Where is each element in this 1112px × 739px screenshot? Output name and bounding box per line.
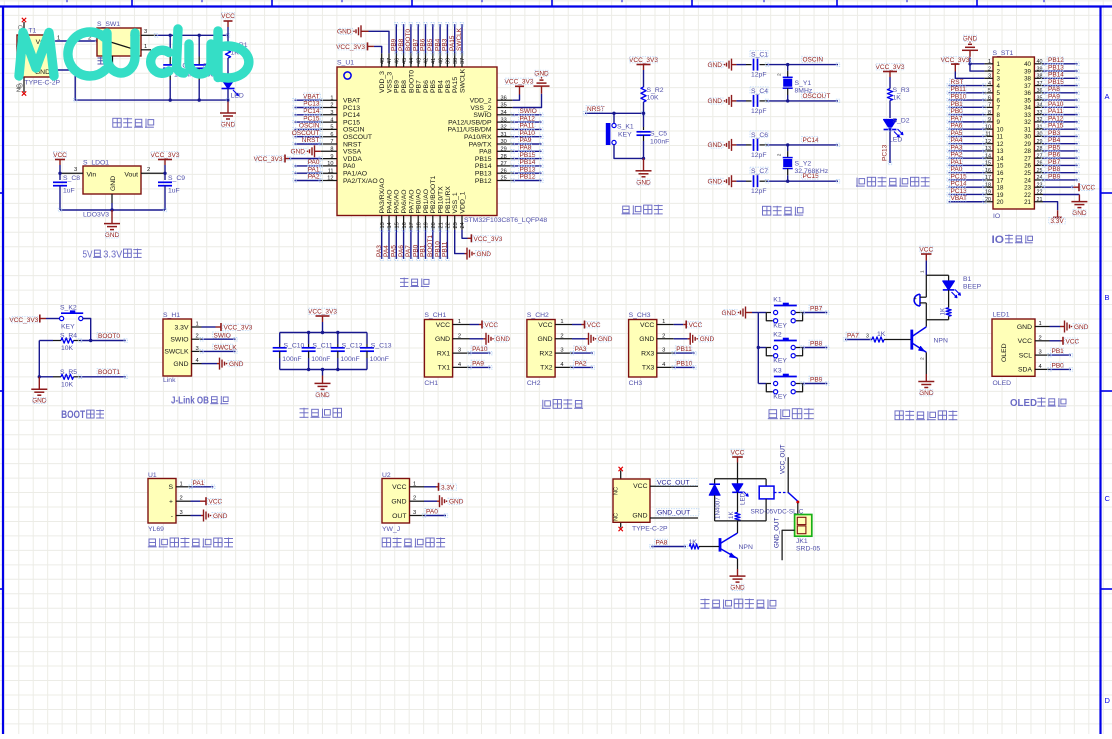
S_CH1 pin2 ground [470,338,484,340]
svg-text:3.3V: 3.3V [175,324,189,331]
svg-text:B1: B1 [963,276,972,283]
svg-text:21: 21 [438,222,444,228]
svg-text:BOOT0: BOOT0 [98,333,120,340]
svg-text:PA4: PA4 [383,245,390,257]
net GND_OUT [650,517,698,519]
svg-text:VCC: VCC [640,322,654,329]
svg-text:48: 48 [380,58,386,64]
svg-text:20: 20 [997,199,1004,206]
svg-text:GND: GND [708,62,723,69]
svg-text:PC14: PC14 [343,112,360,119]
svg-text:5: 5 [330,125,333,131]
svg-text:47: 47 [387,58,393,64]
svg-text:3: 3 [180,510,183,516]
svg-text:OLED: OLED [1010,397,1037,409]
svg-text:37: 37 [460,58,466,64]
net BOOT1 [80,376,126,378]
svg-text:PB10: PB10 [434,241,441,257]
svg-text:-: - [171,513,173,520]
svg-text:24: 24 [460,222,466,228]
svg-text:5: 5 [997,90,1001,97]
svg-text:CH3: CH3 [629,380,643,387]
capacitor S_C11 100nF [308,333,310,345]
svg-text:2: 2 [196,334,199,340]
svg-text:BOOT: BOOT [61,409,85,421]
svg-text:GND: GND [722,310,737,317]
svg-text:PA2/TX/AO: PA2/TX/AO [343,178,378,185]
svg-text:VBAT: VBAT [343,98,360,105]
svg-text:34: 34 [501,110,507,116]
svg-text:KEY: KEY [618,132,632,139]
svg-text:12pF: 12pF [751,108,767,115]
svg-text:1K: 1K [893,95,902,102]
resistor S_R3 1K [887,89,892,101]
svg-text:VCC: VCC [1018,338,1032,345]
svg-text:42: 42 [424,58,430,64]
svg-text:5V: 5V [83,250,93,261]
caption 按键电路 [768,410,778,419]
wire R3 to D2 [889,101,891,119]
svg-text:38: 38 [1024,76,1031,83]
svg-text:36: 36 [501,95,507,101]
svg-text:PB6: PB6 [420,38,427,51]
svg-text:IO: IO [993,213,1000,220]
svg-text:S_C5: S_C5 [650,131,667,138]
ground [643,158,645,170]
base resistor 1K [845,339,872,341]
svg-text:25: 25 [1024,170,1031,177]
svg-text:PA3/RX/AO: PA3/RX/AO [379,178,386,213]
svg-text:7: 7 [997,105,1001,112]
svg-text:LED1: LED1 [993,312,1010,319]
svg-text:12: 12 [997,141,1004,148]
svg-text:1uF: 1uF [63,188,75,195]
svg-text:100nF: 100nF [370,356,389,363]
svg-text:41: 41 [431,58,437,64]
capacitor S_C4 12pF [731,95,733,107]
svg-text:12: 12 [327,176,333,182]
svg-text:16: 16 [997,170,1004,177]
svg-text:30: 30 [1024,134,1031,141]
svg-text:36: 36 [1024,90,1031,97]
svg-text:2: 2 [777,73,783,76]
svg-text:GND: GND [537,336,552,343]
svg-text:OSCOUT: OSCOUT [343,134,372,141]
svg-text:1K: 1K [728,511,735,519]
svg-text:VCC: VCC [587,322,601,329]
LED in alarm [948,275,950,281]
svg-text:7: 7 [988,103,991,109]
svg-text:PB0: PB0 [412,244,419,257]
svg-text:KEY: KEY [773,358,787,365]
svg-text:PB2/BOOT1: PB2/BOOT1 [430,176,437,214]
svg-text:1K: 1K [877,331,886,338]
filter rails [280,332,367,334]
svg-text:32.768KHz: 32.768KHz [795,168,829,175]
alarm bottom join [926,319,948,321]
svg-text:GND: GND [708,142,723,149]
svg-text:2: 2 [920,357,926,360]
svg-text:22: 22 [1037,190,1043,196]
svg-text:VCC_3V3: VCC_3V3 [876,64,905,71]
svg-text:10K: 10K [61,345,74,352]
svg-text:NRST: NRST [343,141,362,148]
caption 电源电路 [113,118,121,127]
svg-text:100nF: 100nF [340,356,359,363]
svg-text:8: 8 [997,112,1001,119]
svg-text:2: 2 [988,66,991,72]
svg-text:2: 2 [560,333,563,339]
svg-text:21: 21 [1024,199,1031,206]
svg-text:J-Link OB: J-Link OB [171,395,209,407]
ST1 pin23 VCC flag [1043,186,1073,188]
svg-text:S_C8: S_C8 [63,175,80,182]
svg-text:S_ST1: S_ST1 [993,50,1014,57]
svg-text:Vout: Vout [124,172,138,179]
svg-text:14: 14 [997,155,1004,162]
H1 pin4 ground [202,363,218,365]
capacitor S_C13 100nF [366,333,368,345]
wire T1 VCC to SW1 [53,40,97,42]
svg-text:BOOT1: BOOT1 [427,235,434,257]
svg-text:32: 32 [1024,119,1031,126]
svg-text:VDD_1: VDD_1 [459,191,466,213]
crystal S_Y2 32.768KHz [786,143,789,146]
relay coil SRD-05VDC-SL-C [765,479,767,486]
svg-text:30: 30 [501,139,507,145]
resistor S_R1 1K [227,35,229,43]
svg-text:VDD_2: VDD_2 [470,98,492,105]
svg-text:NC: NC [613,513,619,521]
svg-text:TX2: TX2 [540,365,553,372]
svg-text:PB4: PB4 [434,38,441,51]
svg-text:RST: RST [951,79,964,86]
svg-text:3: 3 [196,346,199,352]
svg-text:GND: GND [337,29,352,36]
wire net OSCOUT [767,100,838,102]
svg-text:SWIO: SWIO [473,112,491,119]
svg-text:K3: K3 [773,368,782,375]
svg-text:PA5: PA5 [391,245,398,257]
crystal S_Y1 8MHz [786,63,789,66]
svg-text:1: 1 [196,322,199,328]
key S_K1 KEY [613,113,615,123]
svg-text:2: 2 [458,333,461,339]
svg-text:2: 2 [147,167,150,173]
U1 pin1 net PA1 [191,486,214,488]
svg-text:VCC_3V3: VCC_3V3 [629,57,658,64]
svg-text:S_CH3: S_CH3 [629,312,651,319]
svg-text:PA7/AO: PA7/AO [408,189,415,213]
svg-text:S_C12: S_C12 [342,343,363,350]
OLED pin2 VCC flag [1050,340,1061,342]
svg-text:S_Y2: S_Y2 [795,160,812,167]
svg-text:S_C1: S_C1 [751,52,768,59]
svg-text:29: 29 [1024,141,1031,148]
svg-text:28: 28 [1024,148,1031,155]
svg-text:31: 31 [501,132,507,138]
svg-text:17: 17 [997,177,1004,184]
svg-text:KEY: KEY [773,323,787,330]
svg-text:6: 6 [988,95,991,101]
svg-text:3: 3 [330,110,333,116]
svg-text:1: 1 [144,44,147,50]
svg-text:C: C [1105,494,1111,503]
svg-text:GND: GND [708,179,723,186]
svg-text:37: 37 [1024,83,1031,90]
svg-text:26: 26 [1024,163,1031,170]
svg-text:12pF: 12pF [751,188,767,195]
svg-text:K2: K2 [773,332,782,339]
svg-text:27: 27 [501,161,507,167]
svg-text:GND: GND [110,176,117,191]
svg-text:7: 7 [330,139,333,145]
wire Vout [141,172,165,174]
U1 pin36 VCC_3V3 flag [513,95,520,101]
svg-text:D: D [1105,696,1111,705]
svg-text:8: 8 [330,147,333,153]
svg-text:NPN: NPN [934,338,948,345]
wire net PC15 [767,180,838,182]
svg-text:43: 43 [416,58,422,64]
svg-text:VCC: VCC [538,322,552,329]
S_CH1 pin3 net PA10 [470,352,491,354]
svg-text:LED: LED [740,492,747,505]
svg-text:+: + [914,296,917,302]
svg-text:GND: GND [173,361,188,368]
svg-text:KEY: KEY [61,324,75,331]
svg-text:VSS_2: VSS_2 [470,105,491,112]
svg-text:GND: GND [1017,324,1032,331]
svg-text:34: 34 [1024,105,1031,112]
svg-text:3: 3 [144,29,147,35]
net BOOT0 [80,340,126,342]
svg-text:4: 4 [988,81,991,87]
svg-text:VCC_3V3: VCC_3V3 [308,309,337,316]
svg-text:VCC_3V3: VCC_3V3 [505,79,534,86]
OLED pin3 net PB1 [1050,354,1072,356]
svg-text:VCC: VCC [392,484,406,491]
svg-text:PB8: PB8 [401,80,408,93]
svg-text:S_H1: S_H1 [163,312,180,319]
svg-text:10: 10 [997,126,1004,133]
svg-text:Vin: Vin [87,172,97,179]
svg-text:1: 1 [997,61,1001,68]
S_CH3 pin4 net PB10 [674,366,695,368]
svg-text:1: 1 [330,95,333,101]
svg-text:S_CH1: S_CH1 [424,312,446,319]
wire D2 to PC13 [889,130,891,164]
svg-text:1N4007: 1N4007 [715,497,722,519]
svg-text:10: 10 [327,161,333,167]
svg-text:VDD_3: VDD_3 [379,71,386,93]
net PB9 [803,383,828,385]
base net PA8 resistor 1K [651,546,686,548]
svg-text:IO: IO [992,234,1005,246]
svg-text:9: 9 [997,119,1001,126]
svg-text:S_C4: S_C4 [751,88,768,95]
svg-text:PB9: PB9 [394,80,401,93]
svg-text:PB1: PB1 [420,244,427,257]
svg-text:13: 13 [380,222,386,228]
svg-text:LDO3V3: LDO3V3 [83,212,109,219]
capacitor S_C6 12pF [731,139,733,151]
svg-text:1: 1 [458,319,461,325]
svg-text:21: 21 [1037,197,1043,203]
svg-text:22: 22 [1024,192,1031,199]
svg-text:3: 3 [413,510,416,516]
svg-text:1: 1 [662,319,665,325]
svg-text:NC: NC [17,84,23,92]
svg-text:VCC: VCC [484,322,498,329]
svg-text:PA1/AO: PA1/AO [343,171,367,178]
net GND_OUT wire [782,530,795,560]
svg-text:PA9/TX: PA9/TX [469,141,492,148]
svg-text:1: 1 [988,59,991,65]
ground [227,100,229,113]
svg-text:3: 3 [988,74,991,80]
keys ground [745,307,747,319]
svg-text:18: 18 [997,185,1004,192]
svg-text:JK1: JK1 [796,538,808,545]
svg-text:PB10/TX: PB10/TX [438,186,445,214]
svg-text:PA6/AO: PA6/AO [401,189,408,213]
ground [322,370,324,376]
caption 液位检测模块 [382,538,390,547]
svg-text:PB5: PB5 [427,38,434,51]
svg-text:PA0: PA0 [343,163,356,170]
svg-text:10K: 10K [647,95,660,102]
svg-text:SWCLK: SWCLK [164,349,189,356]
svg-text:2: 2 [413,496,416,502]
caption 串口电路 [542,400,551,409]
svg-text:PB8: PB8 [398,38,405,51]
relay top rail [715,478,767,480]
svg-text:GND: GND [708,98,723,105]
svg-text:1: 1 [920,270,926,273]
svg-text:SWCLK: SWCLK [456,27,463,51]
capacitor S_C12 100nF [337,333,339,345]
svg-text:TX3: TX3 [642,365,655,372]
svg-text:PA3: PA3 [376,245,383,257]
svg-text:29: 29 [501,147,507,153]
svg-text:26: 26 [501,168,507,174]
capacitor S_C9 1uF [164,173,166,180]
wire net PC14 [767,144,838,146]
S_CH3 pin2 ground [674,338,688,340]
wire LED to gnd rail [227,89,229,101]
H1 pin1 VCC_3V3 flag [202,326,216,328]
svg-text:10K: 10K [61,381,74,388]
svg-text:2: 2 [997,68,1001,75]
svg-text:6: 6 [330,132,333,138]
svg-text:GND: GND [291,149,306,156]
gnd rail wire [53,70,228,100]
keys vertical bus [757,313,759,384]
svg-text:KEY: KEY [773,394,787,401]
svg-text:YL69: YL69 [148,526,164,533]
svg-text:VCC: VCC [689,322,703,329]
svg-text:K1: K1 [773,297,782,304]
svg-text:BEEP: BEEP [963,284,982,291]
svg-text:RX2: RX2 [539,350,552,357]
svg-text:39: 39 [1024,68,1031,75]
svg-text:PA5/AO: PA5/AO [394,189,401,213]
svg-text:39: 39 [446,58,452,64]
svg-text:S_R3: S_R3 [893,87,910,94]
capacitor S_C7 12pF [731,175,733,187]
ST1 pin21 3.3V flag [1043,202,1058,211]
svg-text:RX1: RX1 [437,350,450,357]
svg-text:12pF: 12pF [751,152,767,159]
svg-text:31: 31 [1024,126,1031,133]
stub SW1 pin1 [141,49,151,51]
capacitor S_C3 100nF [198,35,200,56]
svg-text:VCC: VCC [1082,185,1096,192]
svg-text:33: 33 [501,117,507,123]
LED S_LED1 [227,58,229,79]
capacitor S_C1 12pF [731,59,733,71]
svg-text:PA15: PA15 [449,35,456,51]
svg-text:+: + [169,499,173,506]
connector TYPE-C-2P output [620,471,622,480]
svg-text:17: 17 [409,222,415,228]
svg-text:GND_OUT: GND_OUT [774,518,781,548]
transistor Q2 NPN [719,538,722,552]
svg-text:PB12: PB12 [475,178,492,185]
svg-text:38: 38 [453,58,459,64]
svg-text:PB1/AO: PB1/AO [423,189,430,214]
caption 滤波电路 [300,408,309,418]
svg-text:SCL: SCL [1019,352,1032,359]
svg-text:2: 2 [180,496,183,502]
svg-text:GND: GND [391,499,406,506]
svg-text:100nF: 100nF [282,356,301,363]
S_CH2 pin2 ground [572,338,586,340]
wire LDO gnd [111,194,113,203]
svg-text:S_R4: S_R4 [60,333,77,340]
svg-text:PB7: PB7 [412,38,419,51]
svg-text:BOOT0: BOOT0 [408,70,415,93]
svg-text:VDDA: VDDA [343,156,362,163]
svg-text:PB6: PB6 [423,80,430,93]
svg-text:GND: GND [632,513,647,520]
svg-text:4: 4 [330,117,333,123]
svg-text:19: 19 [997,192,1004,199]
svg-text:6: 6 [997,97,1001,104]
svg-text:PC13: PC13 [882,144,889,161]
svg-text:14: 14 [387,222,393,228]
net VCC_OUT [650,485,698,487]
svg-text:TYPE-C-2P: TYPE-C-2P [632,526,668,533]
svg-text:S_C11: S_C11 [312,343,332,350]
caption 继电器控制电路 [700,599,709,609]
svg-text:PB13: PB13 [475,171,492,178]
connector S_T1 TYPE-C-2P [23,22,25,35]
svg-text:VCC_3V3: VCC_3V3 [151,152,180,159]
svg-text:GND: GND [435,336,450,343]
svg-text:1: 1 [413,481,416,487]
ground [111,210,113,224]
svg-text:1: 1 [1039,321,1042,327]
wire K2 to BOOT0 [83,319,91,341]
net PB7 [803,312,828,314]
svg-text:TX1: TX1 [438,365,451,372]
emitter to ground [737,559,739,570]
svg-text:S_SW1: S_SW1 [97,21,120,28]
svg-text:PB0/AO: PB0/AO [416,189,423,214]
svg-text:VCC_OUT: VCC_OUT [780,444,787,474]
